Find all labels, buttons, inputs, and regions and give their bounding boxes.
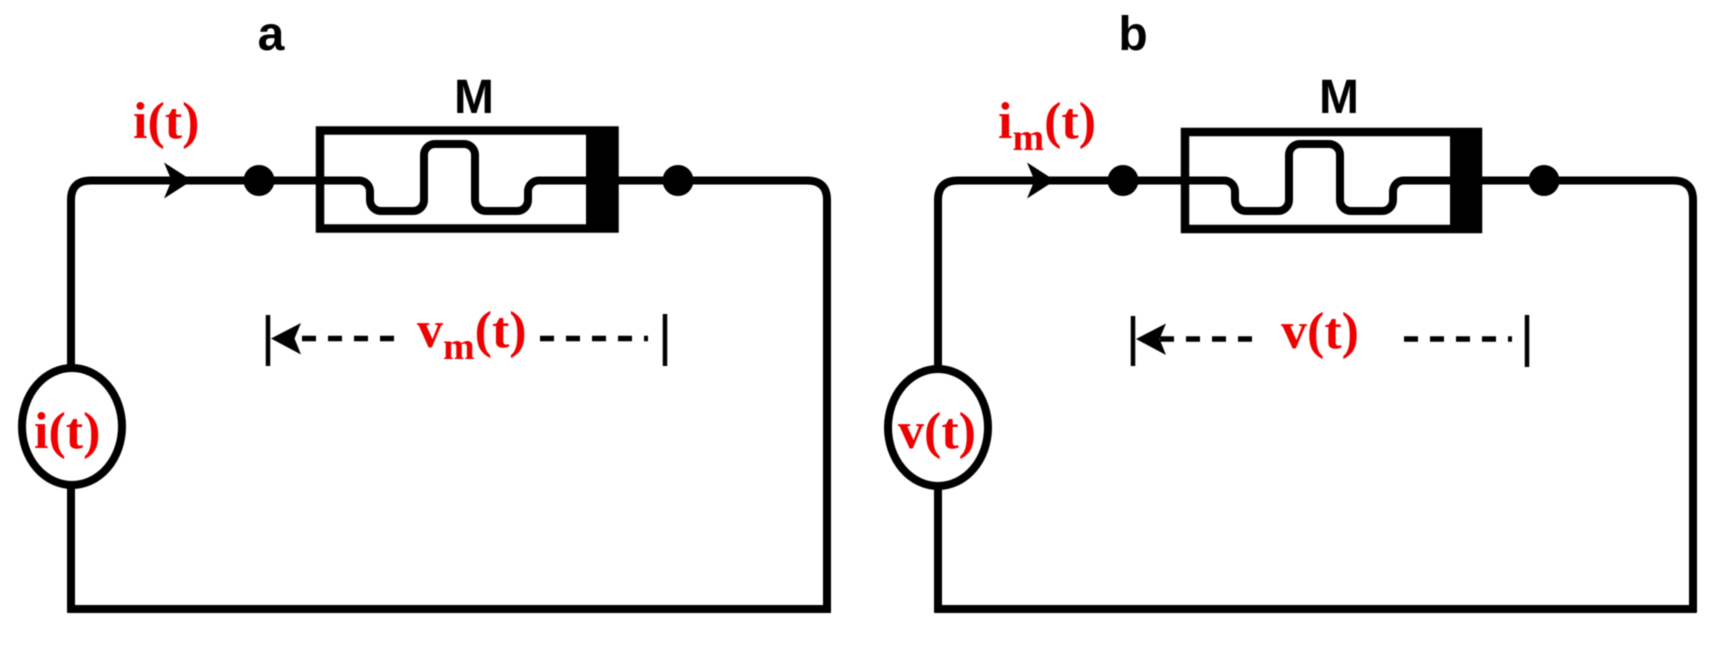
voltage measurement arrowhead (circuit a) <box>271 323 301 355</box>
voltage measurement left dashes (circuit a) <box>302 336 396 342</box>
voltage measurement left dashes (circuit b) <box>1160 336 1254 342</box>
voltage measurement left tick (circuit b) <box>1131 316 1136 366</box>
wire top-left segment with arrow (circuit a) <box>71 181 330 369</box>
memristor meander line (circuit b) <box>1181 144 1455 211</box>
wire bottom (circuit b) <box>934 605 1696 613</box>
voltage measurement left tick (circuit a) <box>266 315 271 366</box>
memristor M body box (circuit b) <box>1185 132 1478 229</box>
svg-text:a: a <box>258 8 285 61</box>
wire memristor-to-corner and right side (circuit a) <box>615 181 827 613</box>
svg-text:i(t): i(t) <box>133 93 199 150</box>
node dot left (circuit b) <box>1108 165 1139 196</box>
voltage measurement right tick (circuit a) <box>663 314 668 366</box>
current direction arrowhead (circuit a) <box>164 163 192 199</box>
wire top-left segment with arrow (circuit b) <box>938 181 1195 370</box>
wire left lower (circuit b) <box>934 486 942 613</box>
memristor M body box (circuit a) <box>320 131 615 229</box>
memristor polarity bar (circuit b) <box>1450 128 1482 233</box>
memristor meander line (circuit a) <box>316 144 590 211</box>
voltage measurement right dashes (circuit a) <box>540 336 648 342</box>
node dot right (circuit a) <box>663 165 694 196</box>
voltage measurement arrowhead (circuit b) <box>1136 324 1166 356</box>
memristor polarity bar (circuit a) <box>586 127 619 233</box>
voltage measurement right tick (circuit b) <box>1525 315 1530 367</box>
wire left lower (circuit a) <box>67 485 75 613</box>
svg-text:v(t): v(t) <box>898 403 976 460</box>
voltage measurement right dashes (circuit b) <box>1404 336 1512 342</box>
wire memristor-to-corner and right side (circuit b) <box>1479 181 1693 613</box>
svg-text:M: M <box>1319 71 1359 124</box>
svg-text:M: M <box>454 71 494 124</box>
svg-text:i(t): i(t) <box>34 403 100 460</box>
current direction arrowhead (circuit b) <box>1027 163 1055 199</box>
svg-text:b: b <box>1118 8 1147 61</box>
node dot right (circuit b) <box>1529 165 1560 196</box>
voltage source v(t) (circuit b) <box>888 369 988 486</box>
svg-text:v(t): v(t) <box>1281 303 1359 360</box>
node dot left (circuit a) <box>244 165 275 196</box>
current source i(t) (circuit a) <box>22 368 122 485</box>
wire bottom (circuit a) <box>67 605 830 613</box>
